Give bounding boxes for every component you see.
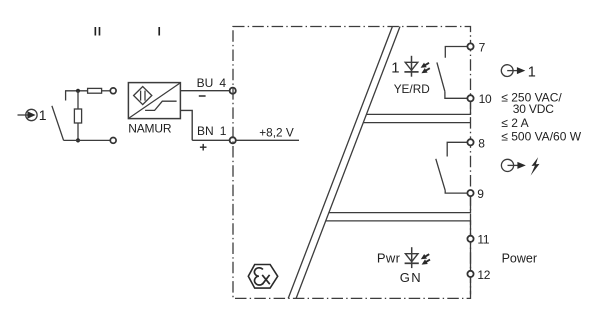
isolation barrier diagonal right <box>296 27 400 299</box>
wire BU (blue) to terminal 4 <box>180 90 229 92</box>
terminal 4 <box>230 88 236 94</box>
terminal 12 <box>467 271 473 277</box>
wire below terminal 12 <box>470 277 472 295</box>
svg-text:11: 11 <box>477 233 489 247</box>
polarity plus <box>200 144 207 151</box>
svg-text:4: 4 <box>219 76 226 90</box>
svg-text:7: 7 <box>479 40 486 54</box>
wire BN (brown) stub from box <box>180 110 192 140</box>
Ex marking (ATEX hexagon) <box>248 265 277 289</box>
svg-text:Power: Power <box>502 252 537 266</box>
output symbol 1 (relay output) <box>501 65 535 81</box>
svg-text:12: 12 <box>477 268 490 282</box>
svg-text:BU: BU <box>197 76 214 90</box>
svg-text:10: 10 <box>479 92 492 106</box>
wire +8,2 V supply <box>236 139 299 141</box>
svg-text:Pwr: Pwr <box>377 250 401 265</box>
resistor R1 (parallel, vertical) <box>74 109 81 123</box>
wire BN to terminal 1 <box>192 139 229 141</box>
terminal circle II bottom <box>110 138 116 144</box>
svg-text:1: 1 <box>220 124 227 138</box>
wire vertical branch lower <box>77 123 79 140</box>
svg-text:8: 8 <box>478 136 485 150</box>
terminal 10 <box>467 95 473 101</box>
svg-text:1: 1 <box>528 65 536 81</box>
relay contact K1 <box>437 47 467 99</box>
fault signal output symbol (circle arrow + lightning) <box>501 157 539 175</box>
svg-text:GN: GN <box>400 270 423 285</box>
node junction bottom <box>76 138 80 142</box>
device outline (dash-dot enclosure) <box>233 27 471 299</box>
svg-text:1: 1 <box>39 107 47 123</box>
svg-text:II: II <box>94 27 102 39</box>
zone 1 bottom edge to terminal 10 <box>366 101 470 114</box>
svg-text:30 VDC: 30 VDC <box>513 102 555 116</box>
terminal 11 <box>467 236 473 242</box>
zone 3 top edge to terminal 11 <box>326 221 471 236</box>
svg-text:≤ 500 VA/60 W: ≤ 500 VA/60 W <box>501 130 581 144</box>
switch S (input II) <box>52 91 66 141</box>
node junction top <box>76 89 80 93</box>
terminal 7 <box>467 43 473 49</box>
NAMUR sensor box <box>128 83 180 119</box>
svg-text:YE/RD: YE/RD <box>394 82 430 96</box>
svg-text:≤ 2 A: ≤ 2 A <box>501 116 528 130</box>
zone 2 top edge <box>363 122 470 124</box>
svg-text:NAMUR: NAMUR <box>128 121 172 135</box>
input symbol 1 (measuring point arrow into circle) <box>18 107 47 123</box>
isolation barrier diagonal left <box>288 27 392 299</box>
polarity minus <box>199 95 206 97</box>
wire top rail II <box>65 90 88 92</box>
svg-text:I: I <box>158 27 161 39</box>
terminal 8 <box>467 139 473 145</box>
wire vertical branch upper <box>77 91 79 109</box>
terminal circle II top <box>110 88 116 94</box>
svg-text:+8,2 V: +8,2 V <box>259 125 294 139</box>
wire resistor to terminal <box>102 90 111 92</box>
relay contact K2 <box>436 142 467 193</box>
wire terminal 11 to 12 <box>470 242 472 271</box>
zone 2 bottom edge to terminal 9 <box>329 196 471 212</box>
terminal 1 <box>230 137 236 143</box>
svg-text:1: 1 <box>391 60 399 77</box>
svg-text:9: 9 <box>477 187 484 201</box>
wire bottom rail II <box>64 139 111 141</box>
resistor R2 (series, horizontal) <box>88 88 102 93</box>
terminal 9 <box>467 190 473 196</box>
svg-text:BN: BN <box>197 124 214 138</box>
